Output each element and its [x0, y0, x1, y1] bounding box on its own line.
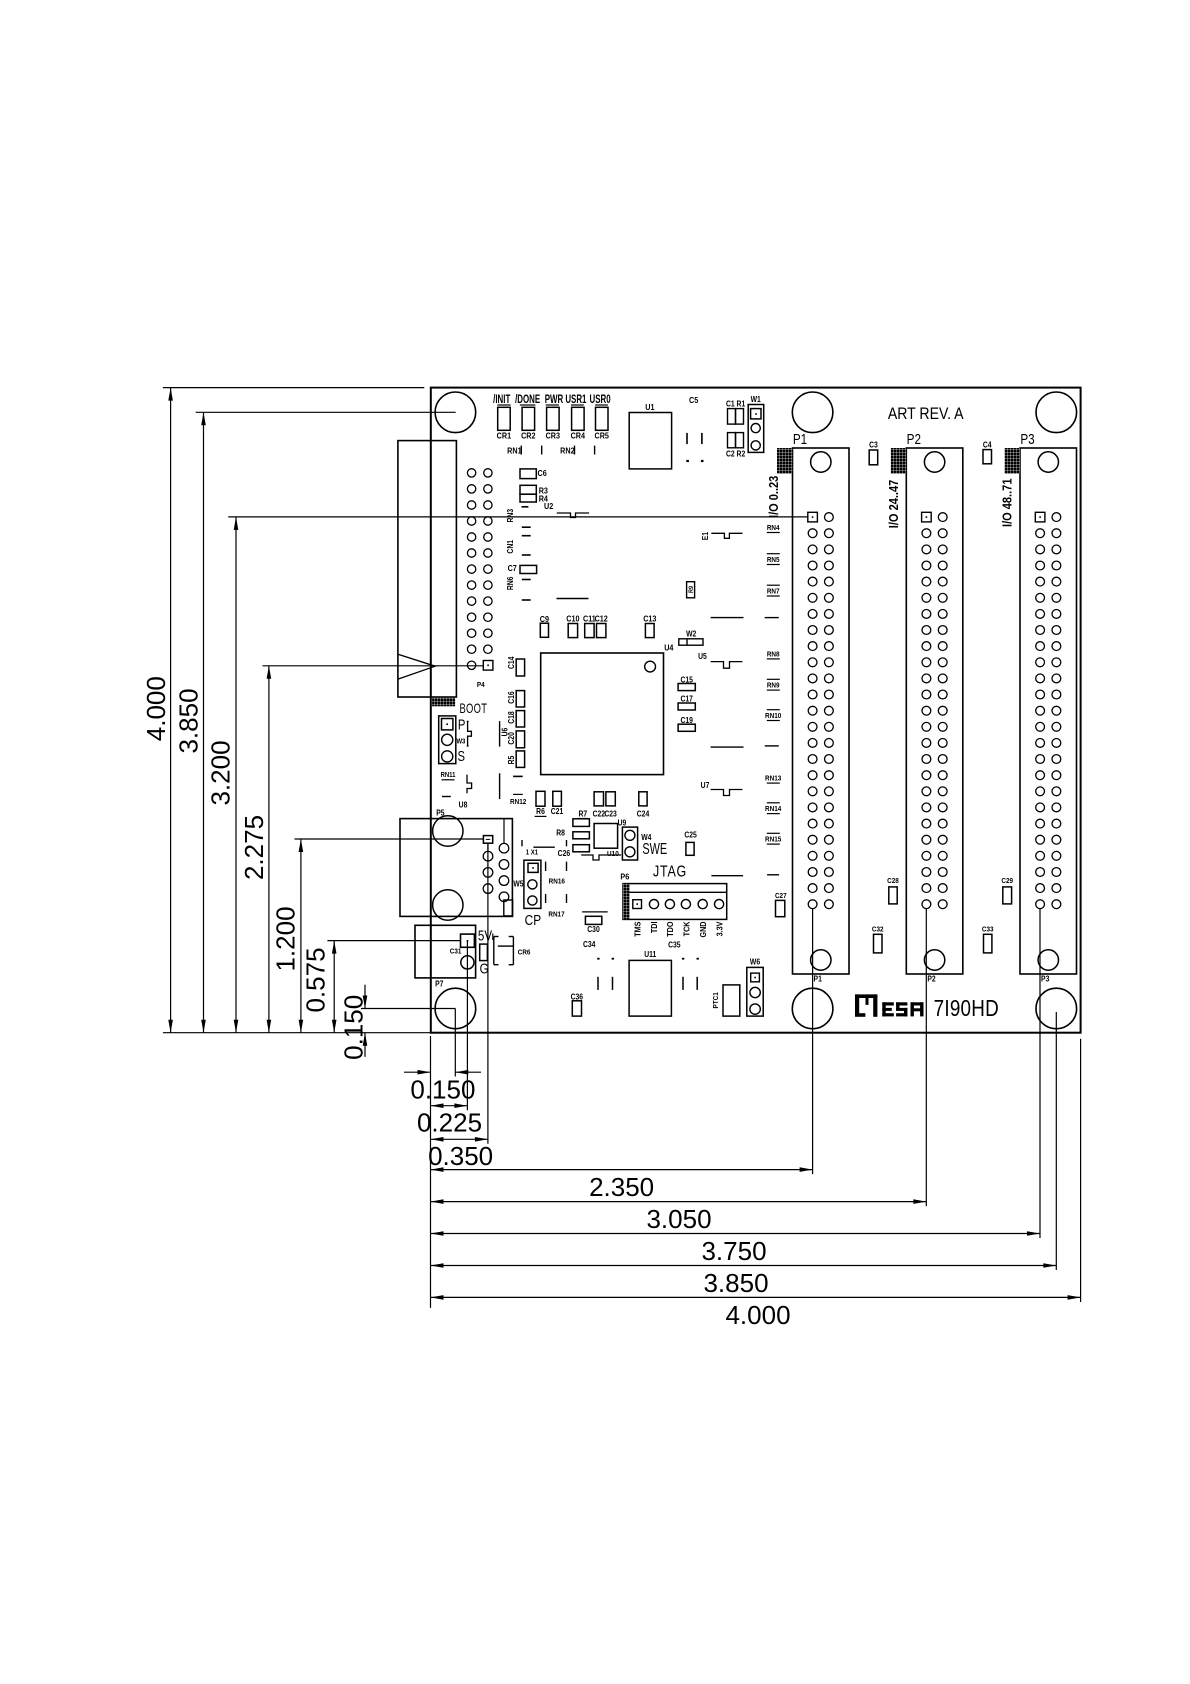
svg-text:C7: C7	[508, 563, 518, 573]
capacitor C32 body	[874, 934, 883, 953]
connector P3 pins	[1035, 512, 1045, 522]
connector P2 pins	[922, 512, 932, 522]
svg-text:C26: C26	[558, 848, 570, 858]
resistor R3	[520, 485, 536, 494]
svg-text:TDI: TDI	[650, 922, 660, 934]
resistor R5 body	[516, 751, 524, 768]
svg-text:G: G	[480, 960, 489, 977]
extension line y=666 (P4 pin row) with arrow	[263, 665, 484, 667]
svg-text:P1: P1	[793, 431, 807, 448]
extension line board-left below	[430, 1036, 432, 1308]
svg-text:4.000: 4.000	[725, 1300, 790, 1330]
svg-text:GND: GND	[699, 921, 709, 937]
mounting hole bottom-right	[1036, 988, 1077, 1029]
extension line y=517 (P1 pin1)	[228, 516, 808, 518]
svg-text:R9: R9	[688, 585, 694, 593]
svg-text:CP: CP	[525, 912, 541, 929]
IC U8 outline	[442, 796, 451, 798]
svg-text:W2: W2	[686, 629, 696, 639]
dimension 3.750 horizontal	[431, 1233, 1041, 1235]
extension line x=926 (P2 pin col)	[925, 909, 927, 1207]
svg-text:C30: C30	[587, 924, 599, 934]
svg-text:0.150: 0.150	[339, 995, 369, 1060]
svg-text:0.350: 0.350	[428, 1141, 493, 1171]
dimension 3.850 vertical	[203, 412, 205, 1032]
svg-text:ART REV. A: ART REV. A	[888, 405, 964, 423]
svg-text:U7: U7	[701, 781, 710, 791]
resistor pack R8	[573, 819, 590, 827]
svg-text:C24: C24	[637, 809, 650, 819]
connector P1 outline	[793, 448, 850, 974]
JTAG header P6	[623, 884, 727, 920]
jumper W5 config	[524, 860, 541, 908]
svg-text:RN15: RN15	[765, 836, 781, 844]
svg-text:JTAG: JTAG	[653, 863, 687, 881]
svg-text:U11: U11	[644, 950, 656, 960]
svg-text:W5: W5	[513, 879, 523, 889]
capacitor C23	[606, 792, 615, 806]
svg-text:RN7: RN7	[767, 588, 780, 596]
svg-text:RN17: RN17	[548, 911, 564, 919]
svg-text:C22: C22	[593, 809, 605, 819]
capacitor C2 / resistor R2	[728, 433, 736, 448]
dimension 0.575 vertical	[333, 941, 335, 1033]
svg-text:C34: C34	[583, 939, 596, 949]
svg-text:S: S	[457, 748, 465, 765]
svg-text:U8: U8	[459, 800, 468, 810]
resistor network RN12	[499, 773, 501, 799]
svg-text:CR6: CR6	[518, 949, 531, 957]
P6 pins	[649, 900, 658, 909]
svg-text:P: P	[458, 716, 466, 733]
dimension 2.275 vertical	[268, 666, 270, 1033]
svg-text:C1 R1: C1 R1	[726, 399, 745, 409]
svg-text:RN1: RN1	[507, 446, 522, 456]
svg-text:7I90HD: 7I90HD	[934, 997, 999, 1022]
capacitor C36 body	[572, 1001, 581, 1016]
svg-text:RN6: RN6	[505, 577, 515, 591]
svg-text:P4: P4	[477, 682, 485, 690]
svg-text:P7: P7	[435, 979, 443, 989]
mounting hole bottom-left	[435, 988, 476, 1029]
capacitor C24	[639, 792, 647, 806]
capacitor C4 body	[983, 450, 992, 464]
LED CR3	[547, 407, 560, 430]
svg-text:RN2: RN2	[560, 446, 575, 456]
extension line y=412 (hole)	[196, 411, 456, 413]
svg-text:P2: P2	[927, 974, 935, 984]
jumper W3 boot select	[439, 716, 456, 764]
capacitor C16 body	[516, 691, 524, 707]
capacitor C17 body	[678, 703, 695, 710]
LED CR5	[596, 407, 609, 430]
extension line x=488 (P5 pin1)	[487, 843, 489, 1144]
svg-text:TCK: TCK	[682, 921, 692, 936]
capacitor C19 body	[678, 724, 695, 731]
connector P7 power jack	[415, 925, 476, 978]
svg-text:3.200: 3.200	[206, 740, 236, 805]
svg-text:U4: U4	[664, 643, 674, 653]
connector P1 bottom hole	[811, 950, 831, 970]
svg-text:R7: R7	[578, 809, 587, 819]
extension line board-bottom left	[163, 1032, 431, 1034]
svg-text:U6: U6	[500, 728, 510, 737]
LED CR4	[572, 407, 585, 430]
svg-text:1 X1: 1 X1	[526, 849, 539, 857]
svg-text:C10: C10	[566, 614, 580, 624]
svg-text:R6: R6	[536, 806, 545, 816]
svg-text:SWE: SWE	[642, 840, 667, 858]
ticks near RN3	[522, 526, 531, 528]
svg-text:W3: W3	[456, 738, 465, 746]
svg-text:C21: C21	[551, 806, 563, 816]
extension line board-top left	[163, 387, 424, 389]
capacitor C31 square pad	[461, 934, 475, 947]
svg-text:P2: P2	[907, 431, 921, 448]
capacitor body near 5V	[480, 944, 488, 961]
svg-text:1.200: 1.200	[271, 906, 301, 971]
connector P1 top hole	[811, 452, 831, 472]
connector P4 (DB25) outline	[398, 441, 457, 697]
svg-text:U1: U1	[645, 402, 655, 412]
svg-text:E1: E1	[701, 532, 711, 540]
svg-text:0.225: 0.225	[417, 1107, 482, 1137]
svg-text:P3: P3	[1020, 431, 1034, 448]
svg-text:U5: U5	[698, 651, 707, 661]
connector P3 hatched strip	[1005, 448, 1021, 474]
svg-text:C3: C3	[869, 440, 878, 450]
connector P2 hatched strip	[891, 448, 907, 474]
svg-text:I/O 48..71: I/O 48..71	[1000, 478, 1015, 527]
jumper W4	[622, 827, 637, 860]
svg-text:0.150: 0.150	[410, 1075, 475, 1105]
connector P4 hatched strip	[432, 698, 455, 707]
svg-text:CN1: CN1	[505, 540, 515, 554]
dimension 3.050 horizontal	[431, 1201, 927, 1203]
svg-text:U9: U9	[618, 818, 627, 828]
capacitor C22	[594, 792, 603, 806]
connector P3 bottom hole	[1038, 950, 1058, 970]
svg-text:C27: C27	[775, 893, 787, 901]
svg-text:2.350: 2.350	[589, 1172, 654, 1202]
svg-text:C18: C18	[506, 711, 516, 723]
svg-text:C2 R2: C2 R2	[726, 449, 745, 459]
extension line y=941 (C31)	[327, 940, 460, 942]
svg-text:C12: C12	[595, 614, 609, 624]
dimension 0.350 horizontal	[431, 1138, 488, 1140]
svg-text:P1: P1	[814, 974, 822, 984]
connector P2 bottom hole	[924, 950, 944, 970]
extension line x=813 (P1 pin col)	[812, 909, 814, 1175]
ticks near U11	[597, 958, 599, 960]
W3 brace	[467, 720, 469, 722]
C31 round pad	[461, 956, 474, 969]
P5 pin 1 square	[483, 836, 492, 844]
dimension 4.000 horizontal	[431, 1296, 1081, 1298]
svg-text:CR3: CR3	[546, 431, 561, 441]
svg-text:P3: P3	[1041, 974, 1049, 984]
svg-text:RN8: RN8	[767, 651, 780, 659]
svg-text:CR5: CR5	[594, 431, 609, 441]
svg-text:BOOT: BOOT	[459, 700, 487, 716]
extension line x=1056 (hole)	[1055, 1012, 1057, 1270]
svg-text:C5: C5	[689, 395, 699, 405]
capacitor C20 body	[516, 731, 524, 748]
RN package lines	[711, 617, 744, 619]
svg-text:C16: C16	[506, 691, 516, 703]
dimension 1.200 vertical	[300, 839, 302, 1033]
resistor R6	[536, 791, 545, 806]
P5 mounting post top	[433, 816, 463, 846]
connector P3 outline	[1020, 448, 1077, 974]
diode CR6 symbol	[493, 937, 495, 965]
connector P4 pin grid 13x2	[467, 469, 475, 477]
capacitor C27 body	[776, 900, 785, 916]
svg-text:C35: C35	[668, 940, 680, 950]
svg-text:C14: C14	[506, 656, 516, 669]
dimension 3.200 vertical	[235, 517, 237, 1033]
svg-text:3.050: 3.050	[646, 1204, 711, 1234]
dimension 0.225 horizontal	[431, 1105, 468, 1107]
svg-text:TDO: TDO	[666, 922, 676, 937]
svg-text:I/O 0..23: I/O 0..23	[766, 475, 781, 518]
svg-text:3.3V: 3.3V	[715, 921, 725, 937]
svg-text:RN5: RN5	[767, 557, 780, 565]
svg-text:C32: C32	[872, 926, 884, 934]
svg-text:2.275: 2.275	[239, 815, 269, 880]
capacitor C30	[582, 911, 608, 913]
connector P3 top hole	[1038, 452, 1058, 472]
P5 mounting post bottom	[433, 890, 463, 920]
svg-text:U2: U2	[544, 501, 554, 511]
svg-text:C4: C4	[983, 440, 992, 450]
svg-text:RN10: RN10	[765, 713, 781, 721]
svg-text:RN9: RN9	[767, 682, 780, 690]
capacitor C6	[520, 469, 536, 479]
svg-text:C33: C33	[982, 926, 994, 934]
capacitor C15 body	[678, 684, 695, 691]
connector P2 outline	[906, 448, 963, 974]
svg-text:RN4: RN4	[767, 525, 780, 533]
svg-text:RN12: RN12	[510, 799, 526, 807]
MESA logo	[855, 994, 924, 1016]
connector P1 hatched strip	[777, 448, 793, 474]
capacitor C14 body	[516, 659, 524, 676]
svg-text:P6: P6	[620, 872, 629, 882]
fuse PTC1	[723, 985, 740, 1016]
extension line y=1008 (hole)	[361, 1008, 455, 1010]
extension line x=1040 (P3 pin col)	[1039, 909, 1041, 1239]
P5 pins left column	[487, 843, 489, 851]
connector P1 pins	[808, 512, 818, 522]
svg-text:3.750: 3.750	[701, 1236, 766, 1266]
extension line y=839 (P5 pin1)	[295, 838, 484, 840]
mounting hole bottom-middle	[792, 988, 833, 1029]
svg-text:C28: C28	[887, 878, 899, 886]
extension line x=1081 (board right)	[1080, 1039, 1082, 1302]
capacitor C29 body	[1003, 887, 1012, 904]
svg-text:PTC1: PTC1	[713, 992, 721, 1008]
svg-text:RN14: RN14	[765, 806, 781, 814]
resistor R4	[520, 494, 536, 502]
svg-text:C23: C23	[604, 809, 616, 819]
svg-text:P5: P5	[436, 808, 444, 818]
svg-text:C13: C13	[643, 614, 657, 624]
svg-text:C6: C6	[538, 469, 548, 479]
svg-text:CR1: CR1	[497, 431, 512, 441]
svg-text:5V: 5V	[478, 927, 492, 944]
capacitor C25 body	[686, 842, 694, 855]
dimension 0.150 horizontal	[404, 1071, 431, 1073]
dimension 2.350 horizontal	[431, 1169, 813, 1171]
capacitor C30 body	[585, 916, 601, 924]
svg-text:RN3: RN3	[505, 509, 515, 523]
LED CR1	[498, 407, 511, 430]
resistor R9	[687, 582, 695, 598]
capacitor C33 body	[984, 934, 992, 953]
mounting hole top-left	[435, 392, 476, 433]
svg-text:R8: R8	[556, 828, 565, 838]
capacitor C26 with lead line	[533, 846, 554, 848]
svg-text:RN16: RN16	[549, 878, 565, 886]
svg-text:W6: W6	[750, 957, 760, 967]
board outline	[431, 388, 1081, 1033]
svg-text:3.850: 3.850	[173, 688, 203, 753]
svg-text:CR2: CR2	[521, 431, 536, 441]
svg-text:C17: C17	[680, 694, 692, 704]
capacitor C21	[553, 791, 562, 806]
IC U6	[499, 721, 501, 747]
svg-text:3.850: 3.850	[703, 1268, 768, 1298]
svg-text:C25: C25	[684, 830, 696, 840]
svg-text:RN13: RN13	[765, 775, 781, 783]
capacitor C28 body	[889, 887, 897, 904]
P5 pins right column	[503, 819, 505, 844]
dimension 4.000 vertical	[170, 388, 172, 1033]
dimension 3.850 horizontal	[431, 1265, 1057, 1267]
svg-text:CR4: CR4	[571, 431, 586, 441]
svg-text:0.575: 0.575	[301, 947, 331, 1012]
svg-text:W1: W1	[751, 394, 761, 404]
capacitor C18 body	[516, 711, 524, 727]
svg-text:TMS: TMS	[633, 922, 643, 937]
extension line x=467 (C31)	[466, 941, 468, 1111]
svg-text:C29: C29	[1001, 878, 1013, 886]
LED CR2	[522, 407, 535, 430]
svg-text:I/O 24..47: I/O 24..47	[886, 479, 901, 528]
connector P5 RJ45 outline	[400, 819, 512, 917]
mounting hole top-middle	[792, 392, 833, 433]
capacitor C3 body	[869, 450, 878, 465]
svg-text:C31: C31	[450, 948, 462, 956]
resistor network RN16 with ticks	[521, 840, 523, 846]
extension line x=455 (hole)	[454, 1009, 456, 1077]
mounting hole top-right	[1036, 392, 1077, 433]
svg-text:R5: R5	[506, 756, 516, 765]
P6 pin 1 square	[633, 900, 642, 909]
P5 latch tab	[504, 900, 513, 916]
connector P2 top hole	[924, 452, 944, 472]
dimension 0.150 vertical	[364, 985, 366, 1009]
svg-text:RN11: RN11	[441, 771, 456, 779]
svg-text:4.000: 4.000	[141, 676, 171, 741]
